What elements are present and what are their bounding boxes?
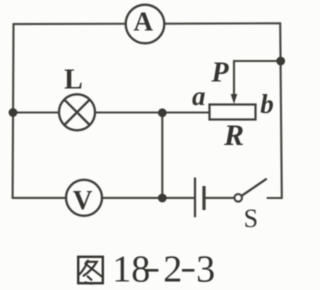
label b bbox=[260, 89, 274, 119]
rheostat slider arrowhead P bbox=[231, 94, 238, 104]
caption character 图 drawn as strokes bbox=[78, 257, 103, 284]
wire middle vertical from node to bottom row bbox=[161, 113, 163, 199]
caption text 2 bbox=[163, 249, 182, 290]
caption text 3 bbox=[196, 249, 215, 290]
svg-text:18: 18 bbox=[112, 249, 150, 290]
voltmeter V bbox=[66, 180, 102, 216]
node junction middle top bbox=[158, 108, 167, 117]
svg-text:2: 2 bbox=[163, 249, 182, 290]
node junction right (slider branch) bbox=[276, 57, 285, 66]
svg-text:R: R bbox=[223, 119, 244, 152]
wire lamp row from left wire to rheostat terminal a bbox=[13, 111, 210, 113]
switch S bbox=[234, 179, 266, 201]
label a bbox=[192, 81, 206, 111]
svg-text:P: P bbox=[210, 58, 229, 89]
svg-text:b: b bbox=[260, 89, 274, 119]
wire slider branch from right wire to slider bbox=[234, 61, 281, 96]
svg-text:S: S bbox=[244, 204, 258, 233]
label P bbox=[210, 58, 229, 89]
caption text 18 bbox=[112, 249, 150, 290]
svg-text:V: V bbox=[73, 185, 93, 215]
wire switch fixed contact bbox=[268, 197, 282, 199]
caption dash bbox=[146, 269, 158, 272]
svg-text:a: a bbox=[192, 81, 206, 111]
lamp L bbox=[59, 64, 95, 130]
caption dash bbox=[182, 269, 194, 272]
node junction left (lamp row) bbox=[9, 108, 18, 117]
node junction middle bottom bbox=[158, 194, 167, 203]
svg-text:L: L bbox=[64, 64, 83, 95]
wire left vertical bbox=[12, 24, 15, 198]
wire bottom row from left corner to battery bbox=[13, 197, 195, 199]
ammeter A bbox=[126, 5, 165, 44]
wire top from left corner to right corner bbox=[14, 22, 281, 25]
label R bbox=[223, 119, 244, 152]
svg-text:A: A bbox=[134, 7, 154, 37]
svg-text:3: 3 bbox=[196, 249, 215, 290]
wire right vertical bbox=[280, 23, 282, 198]
rheostat R body bbox=[210, 105, 256, 120]
label S bbox=[244, 204, 258, 233]
battery cell bbox=[195, 178, 204, 218]
wire battery to switch bbox=[204, 197, 235, 199]
